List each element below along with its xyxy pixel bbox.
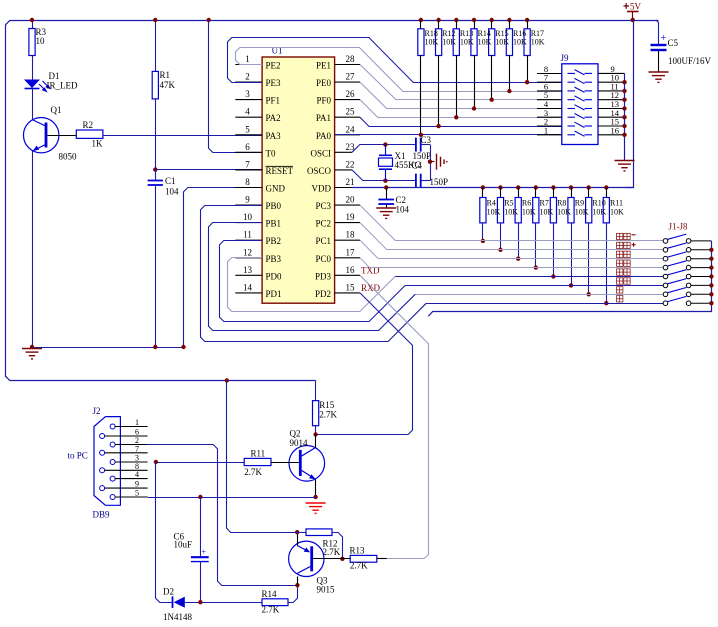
svg-text:16: 16 (346, 265, 356, 275)
junction Q3 base node (340, 557, 344, 561)
wire +5V down to R12 (227, 381, 307, 533)
wire C3 right (421, 144, 430, 146)
pin 12 PB3 (235, 257, 262, 259)
svg-text:2: 2 (245, 72, 250, 82)
svg-text:21: 21 (346, 177, 355, 187)
svg-text:VDD: VDD (312, 184, 332, 194)
wire rail down to T0 pin6 (209, 20, 263, 153)
junction pin8 gnd (181, 345, 185, 349)
wire PC3 pin20 diagonal row1 (360, 205, 396, 241)
pin J9-15 right (598, 125, 625, 127)
wire R9 drop (571, 223, 573, 286)
svg-text:OSCI: OSCI (310, 148, 331, 158)
svg-text:1: 1 (135, 418, 139, 427)
switch J1 (663, 239, 668, 244)
svg-text:104: 104 (396, 205, 410, 215)
pin 26 PF0 (335, 99, 360, 101)
svg-text:J9: J9 (561, 53, 570, 63)
switch J3 (663, 256, 668, 261)
op-amp U1 microcontroller box (262, 57, 335, 303)
junction J9 rail (622, 98, 626, 102)
resistor R1 (152, 71, 158, 99)
wire R1 bottom (155, 99, 157, 170)
pin 23 OSCI (335, 151, 352, 153)
wire Q1 emitter down (32, 151, 34, 347)
wire PC1 pin18 diagonal row3 (360, 240, 378, 259)
svg-text:T0: T0 (266, 148, 276, 158)
svg-text:20: 20 (346, 195, 356, 205)
junction C6 bottom (198, 600, 202, 604)
wire R4 drop (482, 223, 484, 241)
wire PF0 pin26 to J9 pin3 (360, 100, 562, 118)
svg-text:9: 9 (135, 480, 139, 489)
junction switch rail (709, 248, 713, 252)
pin 22 OSCO (335, 169, 352, 171)
wire R18 drop (420, 56, 422, 135)
svg-text:PE0: PE0 (316, 78, 332, 88)
wire R8 drop (553, 223, 555, 277)
capacitor C5 (656, 20, 659, 44)
pin J9-14 right (598, 116, 625, 118)
wire Q3 base to R13 (313, 558, 350, 560)
pin J2-9 (100, 486, 105, 491)
switch J7 (663, 292, 668, 297)
switch element J9 row 8 (568, 131, 593, 136)
pin 27 PE0 (335, 81, 360, 83)
svg-text:15: 15 (346, 282, 356, 292)
svg-text:PA2: PA2 (266, 113, 281, 123)
switch J8 (663, 301, 668, 306)
wire key row J2 (387, 249, 663, 251)
svg-text:RESET: RESET (266, 166, 294, 176)
wire key row J6 (405, 285, 663, 287)
wire R7 drop (535, 223, 537, 268)
junction R18 row (419, 133, 423, 137)
label key function row J1 (617, 233, 631, 239)
wire J2 pin3 to R11 (156, 462, 244, 464)
resistor R4 (481, 185, 485, 189)
junction C6 top (198, 495, 202, 499)
ground C2 (376, 208, 396, 218)
label key function row J3 (617, 251, 631, 257)
crystal X1 (385, 145, 387, 156)
junction switch rail (709, 265, 713, 269)
svg-text:5: 5 (245, 124, 250, 134)
junction Q2 emitter gnd (313, 495, 317, 499)
junction R8 row (551, 274, 555, 278)
svg-text:PB2: PB2 (266, 236, 282, 246)
switch element J9 row 1 (568, 70, 593, 75)
svg-text:10K: 10K (540, 208, 554, 217)
pin 1 PE2 (235, 64, 262, 66)
svg-text:9: 9 (245, 195, 250, 205)
svg-text:R11: R11 (610, 199, 623, 208)
label key function row J5 (617, 269, 631, 275)
wire D2 to R14 (185, 602, 262, 604)
svg-text:8050: 8050 (59, 152, 78, 162)
wire R12 to base node (332, 533, 343, 559)
wire TXD pin16 to R13 (360, 275, 429, 558)
pin J2-8 (100, 468, 105, 473)
svg-text:PD0: PD0 (266, 271, 283, 281)
resistor R11 (604, 185, 608, 189)
svg-text:PA0: PA0 (316, 131, 332, 141)
pin 3 PF1 (235, 99, 262, 101)
resistor R17 (525, 18, 529, 22)
capacitor C4 (415, 174, 417, 188)
wire PB2 pin11 wrap to row6 (220, 241, 406, 322)
wire R15 drop (491, 56, 493, 100)
pin J9-2 left (537, 125, 562, 127)
switch element J9 row 3 (568, 87, 593, 92)
wire key row J3 (378, 258, 663, 260)
resistor R2 (47, 135, 76, 137)
svg-text:9014: 9014 (290, 438, 309, 448)
svg-text:PD2: PD2 (315, 289, 331, 299)
svg-text:R14: R14 (262, 589, 278, 599)
resistor R13 (350, 555, 377, 562)
pin J9-13 right (598, 108, 625, 110)
junction R10 row (587, 292, 591, 296)
wire C4 right (421, 180, 430, 182)
svg-text:R9: R9 (575, 199, 584, 208)
wire RXD pin15 to Q2 collector (316, 293, 413, 435)
wire R11 drop (606, 223, 608, 303)
svg-text:4: 4 (245, 107, 250, 117)
wire R15 bottom (315, 426, 317, 435)
svg-text:26: 26 (346, 89, 356, 99)
svg-text:2.7K: 2.7K (350, 561, 368, 571)
wire PB3 pin12 wrap to row5 (228, 258, 396, 312)
svg-text:7: 7 (245, 159, 250, 169)
capacitor C6 (200, 497, 202, 557)
switch element J9 row 6 (568, 114, 593, 119)
svg-text:Q2: Q2 (290, 429, 301, 439)
svg-text:10uF: 10uF (174, 540, 193, 550)
svg-text:C1: C1 (165, 176, 176, 186)
diode D2 (172, 596, 174, 608)
svg-text:10K: 10K (522, 208, 536, 217)
svg-text:R4: R4 (487, 199, 496, 208)
svg-text:PB0: PB0 (266, 201, 282, 211)
wire J2 pin2 to Q3 collector (148, 445, 298, 586)
ground J9 (615, 161, 635, 171)
pin J9-5 left (537, 99, 562, 101)
svg-text:10K: 10K (592, 208, 606, 217)
svg-text:10: 10 (36, 36, 46, 46)
junction Q3 collector (295, 583, 299, 587)
junction +5V rail (631, 18, 635, 22)
svg-text:6: 6 (245, 142, 250, 152)
wire R14 drop (474, 56, 476, 109)
junction pin3 D2 branch (154, 460, 158, 464)
wire PB0 pin9 wrap to row8 (201, 206, 427, 342)
resistor R5 (498, 185, 502, 189)
resistor R6 (516, 185, 520, 189)
wire pin3 down to D2 (156, 462, 173, 603)
svg-text:R13: R13 (350, 545, 366, 555)
pin J2-7 (100, 450, 105, 455)
wire R10 drop (588, 223, 590, 294)
junction Q2 collector node (313, 432, 317, 436)
wire PA1 pin25 to J9 pin2 (360, 117, 562, 126)
svg-text:2.7K: 2.7K (262, 605, 280, 615)
wire R2 to pin5 PA3 (103, 135, 262, 137)
resistor R14 (472, 18, 476, 22)
junction R16 row (507, 89, 511, 93)
svg-text:12: 12 (243, 247, 252, 257)
pin 20 PC3 (335, 204, 360, 206)
pin J2-3 (110, 460, 115, 465)
wire R17 drop (527, 56, 529, 83)
switch element J9 row 2 (568, 78, 593, 83)
svg-text:C3: C3 (421, 135, 432, 145)
ground left rail (22, 349, 42, 359)
svg-text:14: 14 (243, 282, 253, 292)
svg-text:8: 8 (245, 177, 250, 187)
label key function row J6 (617, 278, 631, 284)
wire PE2 pin1 wrap to J9 pin6 (236, 48, 562, 92)
svg-text:R2: R2 (83, 120, 94, 130)
switch element J9 row 7 (568, 122, 593, 127)
junction X1 top (383, 142, 387, 146)
svg-text:DB9: DB9 (93, 510, 111, 520)
svg-text:R8: R8 (557, 199, 566, 208)
junction T0 feed rail (207, 18, 211, 22)
junction R15 row (490, 98, 494, 102)
svg-text:10K: 10K (575, 208, 589, 217)
ground sideways oscillator (437, 154, 447, 170)
svg-text:9015: 9015 (317, 585, 336, 595)
junction switch rail (709, 274, 713, 278)
svg-text:10K: 10K (504, 208, 518, 217)
resistor R3 (29, 29, 35, 56)
pin J9-11 right (598, 90, 625, 92)
pin 28 PE1 (335, 64, 360, 66)
junction switch rail (709, 301, 713, 305)
pin J9-1 left (537, 134, 562, 136)
svg-text:104: 104 (165, 187, 179, 197)
wire R3 top (32, 20, 34, 29)
resistor R18 (419, 18, 423, 22)
svg-text:10K: 10K (610, 208, 624, 217)
svg-text:5V: 5V (630, 2, 642, 12)
wire R5 drop (500, 223, 502, 250)
pin J2-2 (110, 442, 115, 447)
wire R16 drop (509, 56, 511, 92)
connector J9 (562, 64, 598, 145)
junction J9 rail (622, 115, 626, 119)
svg-text:C5: C5 (668, 38, 679, 48)
junction C1 gnd (153, 345, 157, 349)
junction R3 rail (30, 18, 34, 22)
svg-text:PD1: PD1 (266, 289, 282, 299)
svg-text:PC2: PC2 (315, 219, 331, 229)
resistor R9 (569, 185, 573, 189)
wire PC0 pin17 diagonal row4 (360, 258, 370, 268)
capacitor C1 (155, 170, 157, 181)
wire R1 top (155, 20, 157, 71)
svg-text:5: 5 (135, 489, 139, 498)
wire OSCI pin23 to C3 (352, 145, 416, 153)
pin 2 PE3 (235, 81, 262, 83)
svg-text:10K: 10K (442, 38, 456, 47)
wire PC2 pin19 diagonal row2 (360, 223, 387, 250)
svg-text:R15: R15 (319, 400, 335, 410)
junction switch rail (709, 257, 713, 261)
pin J9-7 left (537, 81, 562, 83)
wire R13 drop (456, 56, 458, 118)
junction switch rail (709, 283, 713, 287)
pin 11 PB2 (235, 239, 262, 241)
svg-text:R7: R7 (540, 199, 549, 208)
svg-text:13: 13 (243, 265, 253, 275)
svg-text:1: 1 (544, 125, 548, 135)
resistor R7 (534, 185, 538, 189)
junction R14 row (472, 106, 476, 110)
junction J9 rail (622, 124, 626, 128)
junction R13 row (454, 115, 458, 119)
junction R11 row (604, 301, 608, 305)
pin 19 PC2 (335, 222, 360, 224)
svg-text:RXD: RXD (361, 283, 381, 293)
pin J9-16 right (598, 134, 625, 136)
junction C2 (384, 185, 388, 189)
ground C5 (649, 72, 669, 82)
svg-text:4: 4 (135, 470, 139, 479)
svg-text:PE3: PE3 (266, 78, 282, 88)
wire +5V drop to VDD rail (625, 20, 634, 188)
pin J2-6 (100, 434, 105, 439)
pin J2-5 (110, 495, 115, 500)
resistor R10 (587, 185, 591, 189)
svg-text:10K: 10K (557, 208, 571, 217)
switch J6 (663, 283, 668, 288)
svg-text:PE1: PE1 (316, 61, 331, 71)
wire switch common rail (428, 241, 711, 316)
ground sideways stub (430, 161, 435, 163)
resistor R8 (551, 185, 555, 189)
wire Q3 emitter up (297, 532, 299, 545)
wire R14 to Q3 collector node (288, 585, 298, 602)
wire ground rail (32, 347, 184, 349)
svg-text:100UF/16V: 100UF/16V (668, 56, 712, 66)
wire R11 to Q2 base (271, 462, 299, 464)
svg-text:1N4148: 1N4148 (163, 612, 192, 622)
transistor Q3 (289, 541, 324, 576)
wire key row J5 (395, 276, 663, 278)
svg-text:R1: R1 (160, 70, 171, 80)
wire PA0 pin24 to J9 pin1 (335, 134, 562, 136)
svg-text:+: + (202, 548, 207, 557)
svg-text:25: 25 (346, 107, 356, 117)
svg-text:PC1: PC1 (315, 236, 331, 246)
wire +5V rail and left border (6, 21, 659, 381)
pin J9-12 right (598, 99, 625, 101)
svg-text:1K: 1K (92, 139, 104, 149)
junction R6 row (516, 257, 520, 261)
pin 15 PD2 (335, 292, 360, 294)
junction Q3 emitter node (295, 530, 299, 534)
wire PB1 pin10 wrap to row7 (209, 223, 416, 331)
capacitor C3 (415, 138, 417, 152)
svg-text:10K: 10K (513, 38, 527, 47)
pin 10 PB1 (235, 222, 262, 224)
junction J9 rail (622, 106, 626, 110)
junction J9 rail (622, 89, 626, 93)
svg-text:C2: C2 (396, 195, 407, 205)
resistor R16 (507, 18, 511, 22)
junction switch rail (709, 292, 713, 296)
svg-text:to PC: to PC (68, 451, 88, 461)
svg-text:10K: 10K (425, 38, 439, 47)
svg-text:+: + (661, 33, 667, 44)
ground Q2 emitter (306, 503, 326, 513)
svg-text:7: 7 (135, 444, 139, 453)
junction X1 bottom (383, 179, 387, 183)
svg-text:J1-J8: J1-J8 (669, 222, 689, 232)
svg-text:TXD: TXD (361, 265, 380, 275)
svg-text:11: 11 (243, 230, 252, 240)
svg-text:2.7K: 2.7K (323, 547, 341, 557)
svg-text:PA3: PA3 (266, 131, 282, 141)
svg-text:1: 1 (245, 54, 250, 64)
svg-text:D1: D1 (49, 71, 60, 81)
wire R6 drop (518, 223, 520, 259)
label key function row J4 (617, 260, 631, 266)
resistor R12 (436, 18, 440, 22)
svg-text:10K: 10K (531, 38, 545, 47)
svg-text:150P: 150P (413, 151, 432, 161)
svg-text:10K: 10K (478, 38, 492, 47)
pin 13 PD0 (235, 274, 262, 276)
resistor R15 (490, 18, 494, 22)
svg-text:R10: R10 (592, 199, 605, 208)
wire J9 pin8 stub (537, 73, 562, 75)
svg-text:OSCO: OSCO (307, 166, 332, 176)
wire key row J8 (426, 303, 663, 305)
pin 16 PD3 (335, 274, 360, 276)
svg-text:10K: 10K (460, 38, 474, 47)
junction R9 row (569, 283, 573, 287)
wire C3-C4 join (430, 145, 432, 181)
switch J4 (663, 265, 668, 270)
svg-text:PF1: PF1 (266, 96, 281, 106)
label key function row J8 (617, 296, 623, 302)
svg-text:19: 19 (346, 212, 356, 222)
svg-text:IR_LED: IR_LED (47, 81, 78, 91)
pin J9-4 left (537, 108, 562, 110)
svg-text:D2: D2 (163, 587, 174, 597)
wire J9 right rail (624, 73, 626, 160)
wire to pin7 RESET (155, 169, 262, 171)
svg-text:18: 18 (346, 230, 356, 240)
pin J9-6 left (537, 90, 562, 92)
wire R12 drop (438, 56, 440, 127)
wire OSCO pin22 to C4 (352, 170, 416, 181)
pin J9-3 left (537, 116, 562, 118)
label key function row J2 (617, 242, 631, 248)
junction RESET node (153, 167, 157, 171)
svg-text:24: 24 (346, 124, 356, 134)
junction R7 row (534, 265, 538, 269)
junction R17 row (525, 80, 529, 84)
svg-text:22: 22 (346, 159, 355, 169)
svg-text:10: 10 (243, 212, 253, 222)
wire pin8 GND drop (184, 188, 263, 348)
switch element J9 row 5 (568, 105, 593, 110)
resistor R13 (454, 18, 458, 22)
